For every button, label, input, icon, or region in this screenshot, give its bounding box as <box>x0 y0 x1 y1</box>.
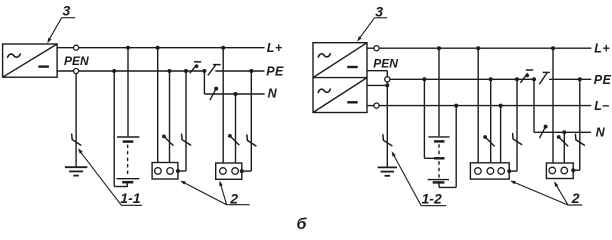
switch S2 on PE (left) <box>208 64 216 75</box>
load 3 protective conductor from PE <box>515 77 519 81</box>
load equipment box 4 (right) <box>546 163 573 179</box>
fault mark on load 1 protective conductor <box>182 134 191 145</box>
fault mark on load 2 protective conductor <box>247 135 256 146</box>
load 2 line from N <box>234 92 238 96</box>
load 4 line from L+ <box>551 46 555 50</box>
wire L- bus <box>379 105 591 107</box>
converter U1 (AC/DC rectifier, left) <box>3 44 58 77</box>
fault mark on load 3 protective conductor <box>513 134 522 145</box>
fault mark on load 4 protective conductor <box>575 134 584 145</box>
battery GB1 feed from L+ <box>126 46 130 50</box>
load 3 line from L+ <box>476 46 480 50</box>
node PE to N junction (right) <box>532 77 536 81</box>
load 1 line from PE <box>168 69 172 73</box>
wire PE down to N (left) <box>203 71 205 94</box>
switch S1 on PE with contact dot (right) <box>520 73 527 83</box>
fault mark on earthing conductor (right) <box>383 135 392 146</box>
svg-text:L−: L− <box>594 99 610 113</box>
wire N bus (right) <box>534 131 591 133</box>
load 3 line from L- <box>499 104 503 108</box>
wire L+ bus (left) <box>79 47 265 49</box>
load 1 line from L+ <box>156 46 160 50</box>
svg-text:L+: L+ <box>594 42 610 56</box>
battery GB2 feed from L+ <box>437 46 441 50</box>
svg-text:2: 2 <box>229 190 238 206</box>
switch S1 on PE with contact dot (left) <box>190 65 197 74</box>
svg-text:N: N <box>268 87 278 101</box>
earthing conductor from PEN (right) <box>386 82 388 167</box>
svg-text:1-1: 1-1 <box>120 190 140 206</box>
svg-text:PEN: PEN <box>64 54 89 68</box>
load equipment box 3 (right) <box>470 163 509 179</box>
wire PE bus right part <box>215 70 264 72</box>
load 1 protective conductor from PE <box>184 69 188 73</box>
converter U2 (double AC/DC rectifier, right) <box>313 43 367 113</box>
svg-text:L+: L+ <box>267 41 283 55</box>
switch on N with contact dot (left) <box>214 87 218 91</box>
svg-text:PEN: PEN <box>373 56 398 70</box>
switch on N with contact dot (right) <box>544 125 548 129</box>
svg-text:б: б <box>297 216 308 233</box>
breaker on load 2 N line <box>228 134 232 138</box>
load 4 protective conductor from PE <box>578 77 582 81</box>
ground electrode (right) <box>378 166 397 168</box>
earthing conductor from PEN terminal <box>75 74 77 167</box>
terminal PEN circle <box>385 77 390 82</box>
load equipment box 1 (left) <box>152 163 178 180</box>
battery GB2 midpoint tap to PE <box>434 157 445 160</box>
terminal L- of U2 <box>367 105 374 107</box>
load 3 line from PE <box>489 77 493 81</box>
fault mark on earthing conductor (left) <box>72 134 81 145</box>
terminal L+ of U2 <box>367 47 374 49</box>
wire PE down to N (right) <box>533 79 535 132</box>
breaker on load 1 PE line <box>162 135 166 139</box>
battery GB1 return to PE <box>126 182 128 186</box>
svg-text:PE: PE <box>266 65 284 79</box>
svg-text:N: N <box>596 125 606 139</box>
wire PE bus right part (right) <box>549 78 591 80</box>
switch S2 on PE (right) <box>539 73 547 84</box>
breaker on load 4 N line <box>557 135 561 139</box>
svg-text:2: 2 <box>571 190 580 206</box>
load equipment box 2 (left) <box>216 163 242 179</box>
load 2 line from L+ <box>221 46 225 50</box>
wire L+ bus (right) <box>379 47 591 49</box>
terminal PEN of U1 <box>57 70 74 72</box>
battery GB2 return to L- <box>438 182 440 187</box>
wire PE bus left part (right) <box>390 78 534 80</box>
wire PE bus left part <box>79 70 205 72</box>
load 2 protective conductor from PE <box>249 69 253 73</box>
load 4 line from N <box>562 130 566 134</box>
terminal PEN of U2 upper stub <box>367 70 387 72</box>
terminal PEN lower stub <box>367 84 387 86</box>
terminal L+ of U1 <box>57 47 74 49</box>
battery GB1 (left) <box>117 136 139 138</box>
wire N bus (left) <box>204 93 264 95</box>
svg-text:3: 3 <box>375 3 383 19</box>
svg-text:3: 3 <box>63 3 71 19</box>
ground electrode (left) <box>65 166 87 168</box>
node PE to N junction (left) <box>202 69 206 73</box>
breaker on load 3 PE line <box>483 135 487 139</box>
svg-text:1-2: 1-2 <box>422 191 442 207</box>
svg-text:PE: PE <box>594 73 612 87</box>
battery GB2 (right) <box>428 136 449 138</box>
